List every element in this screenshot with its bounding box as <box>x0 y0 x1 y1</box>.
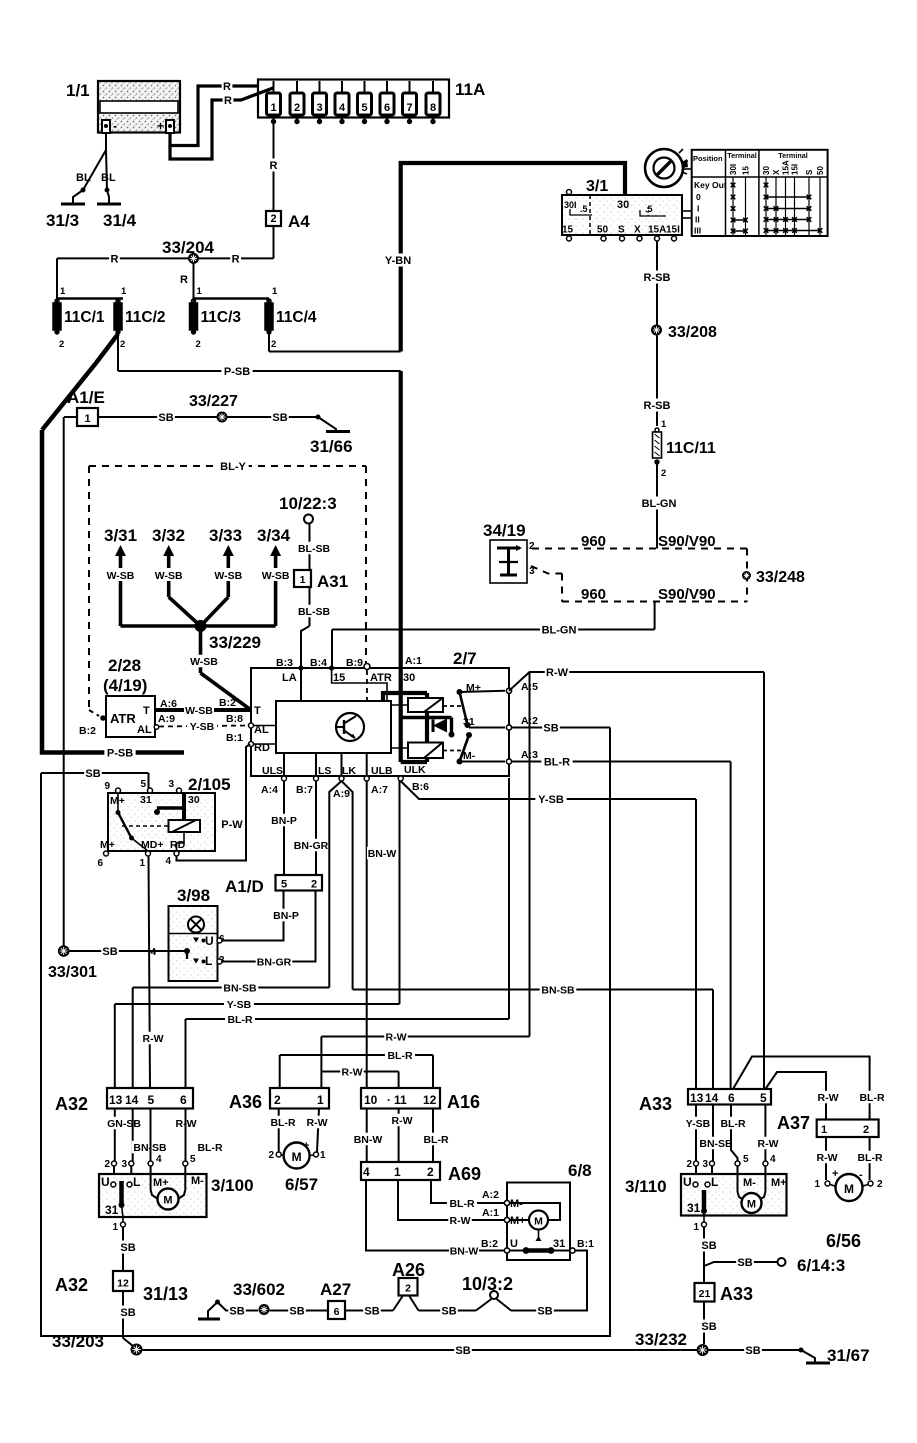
svg-text:S90/V90: S90/V90 <box>658 533 716 550</box>
svg-text:10/3:2: 10/3:2 <box>462 1274 513 1294</box>
svg-text:R: R <box>111 253 119 265</box>
svg-text:6/57: 6/57 <box>285 1175 318 1194</box>
svg-text:2/105: 2/105 <box>188 775 231 794</box>
motor 6/56 <box>826 1174 868 1251</box>
3/110 motor <box>738 1174 766 1213</box>
svg-text:31/4: 31/4 <box>103 211 137 230</box>
svg-text:1/1: 1/1 <box>66 81 90 100</box>
wire P-W relay 2/105 pin 4 to 2/7 B:1 <box>177 744 251 861</box>
svg-text:S90/V90: S90/V90 <box>658 586 716 603</box>
svg-text:A33: A33 <box>720 1284 753 1304</box>
fuse 2 in 11A <box>290 81 304 124</box>
relay coil lower inside 2/7 <box>391 712 464 762</box>
svg-text:BL-R: BL-R <box>544 756 570 768</box>
svg-text:R-W: R-W <box>342 1066 363 1078</box>
wire Y-SB A33 pin 13 to 3/110 pin 2 <box>683 1105 713 1175</box>
svg-text:R-SB: R-SB <box>644 400 671 412</box>
3/100 motor <box>151 1174 186 1210</box>
wire W-SB 2/28 T to unit 2/7 <box>155 697 251 717</box>
svg-text:BL-GN: BL-GN <box>542 624 577 636</box>
svg-text:Terminal: Terminal <box>727 151 756 160</box>
svg-text:SB: SB <box>120 1242 135 1254</box>
wire BL-R A36 pin 2 to A16 pin 12 <box>280 1049 433 1088</box>
wire BL-R from 2/7 A:3 to A33 pin 6 <box>511 755 731 1089</box>
svg-text:BN-SB: BN-SB <box>699 1138 733 1150</box>
wire BL-R A16 pin 12 to A69 pin 2 <box>421 1109 451 1163</box>
svg-text:5: 5 <box>743 1154 749 1165</box>
svg-text:+: + <box>832 1168 838 1180</box>
svg-text:3/1: 3/1 <box>586 178 608 195</box>
svg-text:A1/E: A1/E <box>67 388 105 407</box>
svg-text:1: 1 <box>320 1150 326 1161</box>
fuse 11C/3 <box>190 286 242 350</box>
svg-text:2: 2 <box>294 102 300 114</box>
connector 10/22:3 <box>279 494 337 524</box>
wire R-W branch to A16 pin 11 <box>321 1065 398 1088</box>
svg-text:15A: 15A <box>648 225 666 236</box>
relay 2/105 bottom pins <box>97 839 185 869</box>
svg-text:BL-SB: BL-SB <box>298 543 330 555</box>
terminal A:3 M- of 2/7 <box>506 749 538 764</box>
svg-text:11C/3: 11C/3 <box>201 309 242 326</box>
svg-text:M: M <box>844 1182 854 1196</box>
svg-text:11C/2: 11C/2 <box>125 309 166 326</box>
wire R-W net to A36 pin 1 <box>321 1030 529 1088</box>
thick 30 branch to module inside 2/7 <box>383 691 427 701</box>
svg-text:1: 1 <box>121 286 127 297</box>
svg-text:11C/1: 11C/1 <box>64 309 105 326</box>
wire SB to relay 2/105 pin 5 <box>148 773 150 788</box>
svg-text:L: L <box>711 1175 718 1189</box>
svg-text:ATR: ATR <box>110 711 136 726</box>
svg-text:BN-GR: BN-GR <box>294 840 329 852</box>
wire R-SB from 33/208 to fuse 11C/11 <box>641 336 672 431</box>
svg-text:SB: SB <box>120 1307 135 1319</box>
svg-text:BL-SB: BL-SB <box>298 606 330 618</box>
svg-text:33/227: 33/227 <box>189 393 238 410</box>
fuse 11C/2 <box>114 286 166 350</box>
svg-text:2/7: 2/7 <box>453 649 477 668</box>
svg-text:A:6: A:6 <box>160 698 177 710</box>
wire BN-W A69 pin 4 to 6/8 B:2 <box>366 1180 504 1257</box>
svg-text:2: 2 <box>120 339 125 350</box>
wire R-W A36 pin 1 to pump 6/57 <box>305 1109 329 1153</box>
svg-text:R-W: R-W <box>758 1138 779 1150</box>
svg-text:A:1: A:1 <box>405 655 422 667</box>
svg-text:+: + <box>157 119 164 133</box>
svg-text:7: 7 <box>406 102 412 114</box>
fuse 11C/11 <box>653 428 716 479</box>
svg-text:B:1: B:1 <box>577 1238 594 1250</box>
svg-text:3: 3 <box>121 1159 127 1170</box>
wire R bus <box>57 252 274 299</box>
svg-text:SB: SB <box>364 1305 379 1317</box>
svg-text:B:4: B:4 <box>310 657 327 669</box>
svg-text:A32: A32 <box>55 1094 88 1114</box>
svg-text:Y-SB: Y-SB <box>227 999 252 1011</box>
wire SB A33 pin 21 to 33/232 <box>700 1302 718 1345</box>
svg-text:1: 1 <box>60 286 66 297</box>
svg-text:BL-R: BL-R <box>387 1050 412 1062</box>
junction 33/208 <box>651 324 717 341</box>
svg-text:U: U <box>510 1238 518 1250</box>
svg-text:33/208: 33/208 <box>668 324 717 341</box>
svg-text:A:2: A:2 <box>482 1189 499 1201</box>
wire SB 3/110 pin 1 down <box>693 1211 717 1283</box>
wire Y-SB dashed 2/28 AL to unit 2/7 B:8 <box>154 713 248 733</box>
svg-text:14: 14 <box>705 1091 719 1105</box>
ground 31/67 <box>799 1346 870 1365</box>
connector A69 <box>361 1162 481 1184</box>
wire SB bus 33/203 to 33/232 <box>142 1344 697 1357</box>
svg-text:3/110: 3/110 <box>625 1177 667 1196</box>
svg-text:A4: A4 <box>288 212 310 231</box>
wire BL-SB A31 to unit 2/7 terminal B:3 <box>296 587 333 668</box>
svg-text:R: R <box>224 95 232 107</box>
svg-text:ULS: ULS <box>262 765 283 777</box>
wire Y-SB branch from B:6 down to A32 pin 13 line <box>399 781 401 1004</box>
svg-text:Terminal: Terminal <box>778 151 807 160</box>
ignition switch 3/1 <box>562 178 682 241</box>
wire BN-GR from 3/98 L to A1/D pin 2 <box>222 891 316 969</box>
svg-text:BL-R: BL-R <box>423 1134 448 1146</box>
svg-text:III: III <box>694 226 701 236</box>
svg-text:SB: SB <box>85 768 100 780</box>
wire P-SB 11C/2 pin 2 to unit 2/7 terminal 30 <box>118 332 401 378</box>
svg-text:3/33: 3/33 <box>209 526 242 545</box>
svg-text:3: 3 <box>168 779 174 790</box>
svg-text:B:1: B:1 <box>226 732 243 744</box>
svg-text:11C/11: 11C/11 <box>666 440 716 457</box>
svg-text:3/100: 3/100 <box>211 1176 254 1195</box>
relay 2/105 contact <box>116 793 149 851</box>
control unit 2/7 box <box>251 649 509 776</box>
svg-text:R: R <box>223 81 231 93</box>
wire BN-SB A32 pin 14 to LK leg <box>133 981 330 1088</box>
wire SB 33/227 to ground 31/66 <box>228 411 319 424</box>
svg-text:M+: M+ <box>466 682 481 694</box>
svg-text:6: 6 <box>180 1093 187 1107</box>
svg-text:SB: SB <box>701 1321 716 1333</box>
svg-text:BN-W: BN-W <box>450 1245 479 1257</box>
ground 31/13 <box>143 1284 220 1319</box>
svg-text:30: 30 <box>188 794 200 806</box>
svg-text:BN-P: BN-P <box>273 910 299 922</box>
3/98 pin 4 SB input <box>69 945 190 960</box>
svg-text:30I: 30I <box>564 200 577 210</box>
connector A4 pin 2 <box>266 211 310 258</box>
junction 33/301 <box>48 945 97 981</box>
svg-text:R-W: R-W <box>817 1152 838 1164</box>
svg-text:4: 4 <box>150 947 156 958</box>
seat unit 3/100 <box>99 1174 254 1217</box>
svg-text:1: 1 <box>821 1124 827 1136</box>
svg-text:6/14:3: 6/14:3 <box>797 1256 845 1275</box>
unit 2/28 (4/19) ATR <box>103 656 155 737</box>
svg-text:A37: A37 <box>777 1113 810 1133</box>
relay 2/105 coil <box>122 793 200 851</box>
wire W-SB 33/229 to unit 2/7 terminal T <box>189 626 251 710</box>
svg-text:ULK: ULK <box>404 764 426 776</box>
wire BL-R A32 pin 6 to 2/7 corner <box>186 778 510 1088</box>
svg-text:14: 14 <box>125 1093 139 1107</box>
svg-text:BL-R: BL-R <box>859 1092 884 1104</box>
bottom terminals of 2/7 <box>261 753 429 796</box>
svg-text:BL-GN: BL-GN <box>642 498 677 510</box>
svg-text:2: 2 <box>268 1150 274 1161</box>
svg-text:U: U <box>101 1175 110 1189</box>
svg-text:6: 6 <box>384 102 390 114</box>
svg-text:B:2: B:2 <box>481 1238 498 1250</box>
relay coil upper inside 2/7 <box>391 693 462 712</box>
svg-text:SB: SB <box>455 1345 470 1357</box>
svg-text:4: 4 <box>339 102 346 114</box>
svg-text:2: 2 <box>427 1165 434 1179</box>
svg-text:B:2: B:2 <box>219 697 236 709</box>
svg-text:4: 4 <box>770 1154 776 1165</box>
svg-text:A:1: A:1 <box>482 1207 499 1219</box>
svg-text:M-: M- <box>463 750 476 762</box>
svg-text:T: T <box>254 705 261 717</box>
fuse 4 in 11A <box>335 81 349 124</box>
svg-text:10/22:3: 10/22:3 <box>279 494 337 513</box>
wire R-SB from 3/1 terminal 15A <box>641 241 672 325</box>
wire SB branch to 6/14:3 <box>704 1256 845 1276</box>
svg-text:M: M <box>747 1199 756 1211</box>
wire SB 33/232 to ground 31/67 <box>709 1344 802 1357</box>
wire SB 6/8 B:1 to 10/3:2 <box>511 1251 587 1318</box>
seat unit 3/110 <box>625 1174 787 1216</box>
svg-text:RD: RD <box>170 839 186 851</box>
connector A16 <box>361 1088 480 1112</box>
fuse 5 in 11A <box>358 81 372 124</box>
svg-text:1: 1 <box>693 1222 699 1233</box>
svg-text:5: 5 <box>148 1093 155 1107</box>
connector A32 <box>55 1088 193 1114</box>
svg-text:15I: 15I <box>791 164 800 175</box>
svg-text:Y-SB: Y-SB <box>538 794 564 806</box>
injector 3/31 arrow <box>104 526 137 582</box>
svg-text:5: 5 <box>361 102 367 114</box>
connector A31 pin 1 <box>294 570 348 591</box>
svg-text:M+: M+ <box>100 839 115 851</box>
svg-text:3/31: 3/31 <box>104 526 137 545</box>
wire A33 pin 6 branch to A37 pin 2 <box>733 1057 887 1120</box>
svg-text:W-SB: W-SB <box>262 570 290 582</box>
wire R-W A37 pin 1 to motor 6/56 <box>814 1137 838 1190</box>
svg-text:BN-P: BN-P <box>271 815 297 827</box>
wire BL-GN from 11C/11 to S90/V90 <box>640 464 678 549</box>
svg-text:BN-W: BN-W <box>368 848 397 860</box>
svg-text:1: 1 <box>139 858 145 869</box>
svg-text:2: 2 <box>686 1159 692 1170</box>
wire R-W A69 pin 1 to 6/8 A:1 <box>398 1180 504 1227</box>
svg-text:A69: A69 <box>448 1164 481 1184</box>
svg-text:R-W: R-W <box>546 667 569 679</box>
svg-text:Y-SB: Y-SB <box>190 721 215 733</box>
svg-text:T: T <box>143 705 150 717</box>
ground 31/4 <box>97 188 137 231</box>
terminal B:3 LA of 2/7 <box>276 657 304 701</box>
wire SB 3/100 pin 1 to A32 pin 12 <box>112 1205 136 1271</box>
svg-text:BL-R: BL-R <box>270 1117 295 1129</box>
wire SB from 2/7 A:2 around page <box>41 721 610 1336</box>
connector A27 pin 6 <box>320 1280 351 1319</box>
svg-text:12: 12 <box>423 1093 437 1107</box>
junction 33/602 <box>233 1280 285 1315</box>
wire Y-BN from 11C/4 to ignition switch 3/1 <box>269 163 625 352</box>
svg-text:31: 31 <box>140 794 152 806</box>
svg-text:GN-SB: GN-SB <box>107 1118 141 1130</box>
svg-text:5: 5 <box>760 1091 767 1105</box>
svg-text:1: 1 <box>84 413 90 425</box>
svg-text:2: 2 <box>877 1179 883 1190</box>
svg-text:50: 50 <box>597 225 609 236</box>
svg-text:W-SB: W-SB <box>155 570 183 582</box>
svg-text:Position: Position <box>693 154 723 163</box>
svg-text:AL: AL <box>137 724 152 736</box>
wire 960 S90/V90 upper dashed <box>532 533 747 550</box>
svg-text:R-W: R-W <box>818 1092 839 1104</box>
svg-text:-: - <box>113 119 117 133</box>
svg-text:B:3: B:3 <box>276 657 293 669</box>
svg-text:960: 960 <box>581 533 606 550</box>
svg-text:.: . <box>387 1090 390 1104</box>
svg-text:BN-SB: BN-SB <box>541 984 575 996</box>
svg-text:1: 1 <box>112 1222 118 1233</box>
svg-text:BL-R: BL-R <box>197 1142 222 1154</box>
fuse 8 in 11A <box>426 81 440 124</box>
ground 31/66 <box>310 415 353 457</box>
junction 33/232 <box>635 1330 709 1356</box>
svg-text:B:2: B:2 <box>79 725 96 737</box>
svg-text:2: 2 <box>863 1124 869 1136</box>
svg-text:960: 960 <box>581 586 606 603</box>
connector A1/E pin 1 <box>64 388 105 426</box>
svg-text:ULB: ULB <box>371 765 393 777</box>
injector 3/34 arrow <box>257 526 291 582</box>
svg-text:S: S <box>805 169 814 175</box>
svg-text:A:9: A:9 <box>333 788 350 800</box>
battery 1/1 <box>66 81 180 133</box>
svg-text:15: 15 <box>562 225 574 236</box>
wire BN-SB A33 pin 14 to 3/110 pin 3 <box>698 1105 735 1175</box>
fuse 11C/4 <box>265 286 317 350</box>
terminal B:8 AL pin of 2/7 <box>226 713 276 736</box>
svg-text:2: 2 <box>270 213 276 225</box>
wire BL-R A69 pin 2 to 6/8 A:2 <box>431 1180 504 1210</box>
connector A36 <box>229 1088 329 1112</box>
svg-text:11C/4: 11C/4 <box>276 309 317 326</box>
wire BN-GR from 2/7 B:7 to A1/D pin 2 <box>293 781 330 875</box>
svg-text:R: R <box>270 160 278 172</box>
svg-text:II: II <box>695 215 700 225</box>
svg-text:R-SB: R-SB <box>644 272 671 284</box>
svg-text:B:6: B:6 <box>412 781 429 793</box>
inner control module of 2/7 with transistor <box>276 701 391 753</box>
svg-text:A27: A27 <box>320 1280 351 1299</box>
svg-text:Key Out: Key Out <box>694 180 727 190</box>
svg-text:P-W: P-W <box>221 819 243 831</box>
svg-text:BL: BL <box>76 172 91 184</box>
svg-text:.5: .5 <box>580 204 588 214</box>
terminal B:4 15 of 2/7 <box>310 657 387 701</box>
svg-text:I: I <box>697 204 699 214</box>
svg-text:MD+: MD+ <box>141 839 163 851</box>
3/98 terminal L pin 3 <box>193 954 225 968</box>
svg-text:3: 3 <box>702 1159 708 1170</box>
svg-text:B:8: B:8 <box>226 713 243 725</box>
svg-text:33/301: 33/301 <box>48 964 97 981</box>
wire 30 feed down to unit 2/7 terminal A:1 <box>399 371 403 668</box>
svg-text:SB: SB <box>102 946 117 958</box>
svg-text:M-: M- <box>191 1175 204 1187</box>
svg-text:3/98: 3/98 <box>177 886 210 905</box>
wire BL-SB 10/22:3 to A31 <box>296 524 333 571</box>
wire Y-SB B:6 branch to A32 pin 13 <box>115 998 400 1088</box>
svg-text:33/229: 33/229 <box>209 633 261 652</box>
svg-text:U: U <box>683 1175 692 1189</box>
wire GN-SB A32 pin 13 to 3/100 pin 2 <box>104 1109 142 1175</box>
svg-text:BL-R: BL-R <box>857 1152 882 1164</box>
3/98 terminal U pin 6 <box>193 934 225 948</box>
svg-text:6: 6 <box>97 858 103 869</box>
wire A33 pin 5 branch to A37 pin 1 <box>765 1072 839 1120</box>
connector A33 <box>639 1089 771 1114</box>
svg-text:R: R <box>180 274 188 286</box>
svg-text:M: M <box>292 1150 302 1164</box>
svg-text:BN-SB: BN-SB <box>223 982 257 994</box>
wire BN-SB A32 pin 14 to 3/100 pin 3 <box>121 1109 168 1175</box>
connector A1/D pins 5 and 2 <box>225 875 322 896</box>
svg-text:X: X <box>772 169 781 175</box>
wire R-W relay 2/105 pin 1 to A32 pin 5 <box>141 856 165 1088</box>
connector A37 <box>777 1113 879 1137</box>
wire BL-R A36 pin 2 to pump 6/57 <box>268 1109 298 1153</box>
connector A33 pin 21 <box>695 1283 754 1304</box>
svg-text:1: 1 <box>270 102 276 114</box>
wire SB A26 to 10/3:2 <box>419 1304 477 1317</box>
svg-text:31: 31 <box>105 1203 119 1217</box>
svg-text:SB: SB <box>537 1305 552 1317</box>
svg-text:BL-Y: BL-Y <box>220 461 246 473</box>
svg-text:W-SB: W-SB <box>214 570 242 582</box>
svg-text:SB: SB <box>289 1305 304 1317</box>
connector 10/3:2 <box>462 1274 513 1311</box>
junction 33/204 <box>162 238 215 299</box>
svg-text:33/204: 33/204 <box>162 238 215 257</box>
svg-text:34/19: 34/19 <box>483 521 526 540</box>
svg-text:A:9: A:9 <box>158 713 175 725</box>
svg-text:R-W: R-W <box>450 1215 471 1227</box>
svg-text:LK: LK <box>342 765 356 777</box>
wire SB A1/E down to 33/301 <box>63 417 65 946</box>
svg-text:BL-R: BL-R <box>720 1118 745 1130</box>
wire BL-R A32 pin 6 to 3/100 pin 5 <box>183 1109 225 1175</box>
wire BL-GN from S90/V90 to unit 2/7 terminal 15 <box>332 602 655 669</box>
wire fuse bus left 11C/1-11C/2 <box>57 297 123 300</box>
svg-text:3/34: 3/34 <box>257 526 291 545</box>
wire Y-SB from 2/7 B:6 to A33 pin 13 <box>401 781 696 1089</box>
svg-text:5: 5 <box>281 879 287 891</box>
gear selector 34/19 <box>483 521 535 583</box>
svg-text:.5: .5 <box>645 204 653 214</box>
6/8 U-31 bus <box>509 1247 570 1254</box>
ignition key symbol <box>645 149 692 187</box>
wire SB 31/13 to 33/602 <box>218 1302 259 1317</box>
svg-text:S: S <box>618 225 625 236</box>
svg-text:1: 1 <box>814 1179 820 1190</box>
